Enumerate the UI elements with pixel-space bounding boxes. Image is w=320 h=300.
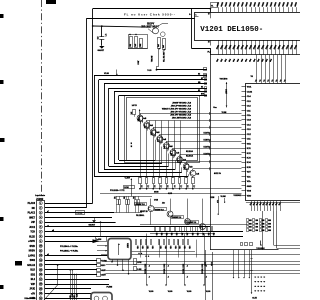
svg-text:S002: S002 [30,260,36,262]
junction dots row [138,253,139,254]
bus loop wire 5 left [114,92,116,164]
svg-text:888: 888 [262,220,265,222]
bus line A y188.8 [139,188,242,190]
bus loop wire 1 left [94,75,96,176]
wire pin11 label P?L12B4 [97,250,108,252]
ground GAU2T [99,46,104,49]
svg-text:J2B: J2B [186,233,188,236]
bus loop wire 3 bottom [104,169,175,171]
svg-text:HL2D: HL2D [29,236,35,238]
svg-text:B02: B02 [140,44,142,47]
svg-text:NC: NC [32,208,36,210]
svg-text:P/J08 # J02: P/J08 # J02 [202,264,204,274]
Q32 emitter [170,217,172,225]
junction dots on cluster top [129,34,130,35]
cascade transistor Q12 [144,122,150,128]
svg-text:+3V0V: +3V0V [28,241,35,243]
svg-text:8: 8 [261,286,263,287]
CRT pin left [195,16,199,18]
transistor in module b [103,296,108,300]
wire pin12 [45,255,108,257]
svg-text:S2: S2 [198,74,200,76]
node junction cap tap [101,25,103,27]
wire pin1 [45,203,93,205]
svg-text:J-2B: J-2B [151,246,153,249]
svg-text:2u2: 2u2 [151,132,153,135]
bus loop wire 3 left [104,84,106,170]
svg-text:1:8 T.8: 1:8 T.8 [132,105,137,107]
cascade collector wire 4 [159,134,161,136]
svg-text:4P2D: 4P2D [29,245,35,248]
connector pin 12 [39,254,42,257]
svg-text:8: 8 [258,281,260,282]
svg-text:888: 888 [256,223,259,225]
svg-text:VSS: VSS [247,191,252,193]
wire pin4 with ground GAUOT [45,217,112,219]
svg-text:8: 8 [255,290,257,291]
svg-text:2u2: 2u2 [184,167,186,170]
bus loop wire 1 bottom [94,176,188,178]
svg-text:J-2B: J-2B [146,246,148,249]
svg-text:J2B: J2B [196,233,198,236]
svg-text:J-2B: J-2B [141,246,143,249]
staircase wire 1 to right edge [273,211,275,245]
svg-text:2u2: 2u2 [131,112,133,115]
svg-text:JRGW VW DRD -7L8: JRGW VW DRD -7L8 [172,102,192,104]
svg-text:J-2: J-2 [146,185,148,187]
resistor R1 [130,37,133,48]
svg-text:KL2B1A: KL2B1A [186,155,194,158]
wire pin9 with signal arrow [45,241,93,243]
Q34 emitter [202,225,204,230]
resistor row lower [136,240,137,245]
wire down from cluster [158,49,160,67]
connector pin 9 [39,240,42,243]
svg-text:VDD: VDD [247,195,252,197]
wire pin6 [45,226,210,228]
svg-text:J-2: J-2 [160,185,162,187]
cascade emitter wire 9 [192,176,194,178]
svg-text:J-2: J-2 [186,185,188,187]
module box boundary [210,54,300,56]
svg-text:J-P02: J-P02 [137,262,141,264]
wire pin19 [45,288,91,290]
svg-text:1u3: 1u3 [97,36,99,39]
supply rails VL00 [146,234,148,285]
svg-text:1u8: 1u8 [163,45,165,48]
small boxes J-P02 [134,259,137,265]
cascade base resistor R21 [133,110,136,115]
CRT drive lines to IC [256,55,258,84]
svg-text:BL2: BL2 [31,279,36,281]
svg-text:8: 8 [40,236,41,238]
tick marks on module edge for collector wires [209,112,211,115]
svg-text:8: 8 [258,290,260,291]
svg-text:J-2: J-2 [153,185,155,187]
bus line y251 [130,251,195,253]
svg-text:J-2: J-2 [173,185,175,187]
wire pin3 with fuse IF252 [45,212,114,214]
wire pin15 [45,269,97,271]
connector pin 7 [39,230,42,233]
svg-text:1: 1 [40,203,41,205]
IC U1 body [246,84,301,201]
wire net pin2 horizontal [87,18,195,20]
svg-text:TCH: TCH [30,232,35,234]
svg-text:KL2B14: KL2B14 [186,150,193,153]
arrow rails under module [233,250,235,278]
cascade emitter resistor R36 [172,178,175,184]
svg-text:2u2: 2u2 [144,125,146,128]
svg-text:J-2B: J-2B [174,246,176,249]
svg-text:S4: S4 [201,85,203,88]
cascade emitter wire 7 [179,162,181,177]
svg-text:VL3M: VL3M [221,196,226,198]
bus loop wire 2 bottom [99,172,182,174]
svg-text:KJ2T1A: KJ2T1A [204,152,212,155]
svg-text:J-2B: J-2B [136,246,138,249]
node junction at CRT grid [209,8,211,10]
svg-text:888: 888 [262,227,265,229]
wire pin20 [45,293,91,295]
transistor Q33 [185,219,191,225]
svg-text:6: 6 [40,227,41,229]
svg-text:C1S2: C1S2 [247,91,253,93]
wire pin2 [45,207,87,209]
svg-text:J-2B: J-2B [164,246,166,249]
cascade transistor Q16 [170,150,176,156]
Q33 emitter [187,224,189,226]
arrow up 1/CM [131,179,133,197]
cascade base resistor R25 [160,138,163,143]
wire pin15 branch down b [72,269,73,270]
transistor in module a [94,296,99,300]
svg-text:JCC2: JCC2 [29,227,36,229]
svg-text:BLR: BLR [30,270,35,272]
svg-text:FL2: FL2 [208,52,211,54]
arrow down x218 [218,196,220,215]
svg-text:2u2: 2u2 [164,146,166,149]
wire pin17 [45,279,109,281]
svg-text:a7: a7 [47,211,49,213]
connector pin 11 [39,249,42,252]
arrow in list box [139,109,141,120]
cascade base resistor R24 [153,131,156,136]
bus line B2 y196.3 [116,196,152,198]
svg-text:ZGZBW 7L8: ZGZBW 7L8 [187,222,196,224]
cascade emitter wire 5 [166,149,168,178]
CRT top pins [218,7,220,12]
CRT pin G2 top [210,12,212,18]
svg-text:S/C08: S/C08 [154,192,159,194]
cascade base resistor R28 [180,158,182,163]
wire pin13 [45,260,97,262]
svg-text:3DJPY: 3DJPY [147,24,155,26]
svg-text:8: 8 [264,290,266,291]
wire to V1201 grid pin [210,9,212,12]
wire pin7 long [45,231,243,233]
svg-text:J-2: J-2 [193,185,195,187]
svg-text:3: 3 [40,212,41,214]
svg-text:VL00: VL00 [168,291,173,293]
svg-text:ZGZBW 7L8: ZGZBW 7L8 [172,217,181,219]
rail CL55 [251,250,253,293]
resistor group box [129,35,148,49]
svg-text:J02: J02 [124,196,126,199]
transistor Q32 [167,211,173,217]
svg-text:2u2: 2u2 [158,139,160,142]
connector pin 8 [39,235,42,238]
svg-text:1u3: 1u3 [135,44,137,47]
svg-text:C12M: C12M [210,197,215,199]
cascade transistor Q13 [150,129,156,135]
svg-text:S2: S2 [198,90,200,92]
svg-text:1uF08: 1uF08 [96,239,101,241]
label ZGZBW for Q32 [155,208,167,211]
svg-text:Y-JBY: Y-JBY [125,178,131,180]
svg-text:KJ2T14: KJ2T14 [204,145,212,148]
registration mark left 2 [0,80,4,84]
cascade base resistor R26 [167,145,169,149]
svg-text:ZGZBW 7L8: ZGZBW 7L8 [136,204,145,206]
Q32 collector [170,199,172,211]
board boundary dash-dot line [41,0,43,195]
bus loop wire 2 left [98,80,100,173]
registration mark left 5 [0,285,4,289]
bus line B y193.4 [100,193,242,195]
svg-text:2: 2 [40,208,41,210]
svg-text:FL: FL [211,5,213,7]
svg-text:B2: B2 [208,40,210,42]
bus loop wire 5 top [114,91,207,93]
svg-text:J2B: J2B [175,233,177,236]
svg-text:YGVJHG: YGVJHG [220,79,228,81]
svg-text:J-2: J-2 [179,185,181,187]
cascade collector wire 5 [166,141,168,143]
cascade collector wire 6 [172,148,174,150]
svg-text:J02: J02 [133,196,135,199]
boxes above module bottom [241,243,243,246]
IC U1 left pins [242,86,246,88]
svg-text:G1b: G1b [247,143,252,145]
svg-text:VL00: VL00 [206,291,211,293]
svg-text:J2B: J2B [170,233,172,236]
svg-text:JL0: JL0 [216,200,218,203]
svg-text:JRG JP? VB DRD -7L8: JRG JP? VB DRD -7L8 [170,111,191,113]
svg-text:J2B: J2B [202,233,204,236]
resistor grid in module [247,219,249,222]
IC U1 bottom pins [251,201,253,211]
svg-text:8: 8 [255,277,257,278]
IC bottom bus line [246,202,300,204]
svg-text:S7: S7 [201,78,203,80]
svg-text:P/J08 # J02: P/J08 # J02 [183,264,185,274]
svg-text:J2B: J2B [191,233,193,236]
svg-text:GAU2T: GAU2T [98,49,105,52]
svg-text:8: 8 [261,281,263,282]
connector pin 6 [39,225,42,228]
connector pin 4 [39,216,42,219]
cascade emitter resistor R33 [153,178,155,184]
svg-text:LJJ05 TB TYB: LJJ05 TB TYB [162,51,164,63]
cascade emitter wire 8 [186,169,188,178]
shielded module bottom-left [91,293,112,300]
cascade emitter resistor R32 [146,178,148,184]
cascade transistor Q15 [163,143,169,149]
svg-text:JRG JP?GB DRD -7L8: JRG JP?GB DRD -7L8 [171,105,192,107]
cascade transistor Q18 [183,163,189,169]
svg-text:ZGZBW 7L8: ZGZBW 7L8 [155,209,164,211]
resistor pairs under bus [117,200,119,205]
transistor Q34 [200,224,206,230]
svg-text:9NET: 9NET [29,217,35,219]
wire pin10 label P?L1254 [97,245,108,247]
connector J1202 body [37,201,45,300]
svg-text:GOLA2: GOLA2 [27,264,35,267]
svg-text:888: 888 [262,223,265,225]
cascade collector wire 7 [179,155,181,157]
svg-text:8: 8 [258,286,260,287]
arrow above Y-1S05H [260,241,262,246]
svg-text:8: 8 [261,277,263,278]
svg-text:7: 7 [40,231,41,233]
Q34 collector [202,199,204,224]
cascade collector wire 3 [153,127,155,129]
vertical wires bottom mid [140,240,142,258]
cascade transistor Q19 [190,170,196,176]
svg-text:JL5b: JL5b [210,262,212,266]
svg-text:PL/BM: PL/BM [107,287,113,289]
svg-text:J8C0: J8C0 [137,61,139,65]
registration mark top [46,0,56,4]
svg-text:J-2B: J-2B [178,246,180,249]
svg-text:17: 17 [40,279,42,281]
svg-text:JRG JW7B DRD -7L8: JRG JW7B DRD -7L8 [172,117,192,119]
svg-text:JL50: JL50 [204,262,206,266]
svg-text:888: 888 [249,223,252,225]
connector pin 20 [39,292,42,295]
svg-text:2u2: 2u2 [171,153,173,156]
svg-text:10: 10 [40,246,42,248]
svg-text:P/J08 # J02: P/J08 # J02 [145,264,147,274]
svg-text:888: 888 [268,227,271,229]
resistor R4 [158,38,161,49]
svg-text:1/CM: 1/CM [124,187,129,189]
bus connectors from boxes [100,260,106,261]
wire pin16 [45,274,97,276]
transistor Q2 partial [161,32,166,37]
svg-text:G2: G2 [208,12,210,14]
svg-text:P?L12B4-L~? ?L5Ba: P?L12B4-L~? ?L5Ba [60,250,79,253]
bus loop wire 3 top [104,83,207,85]
svg-text:2u2: 2u2 [177,160,179,163]
label 1/CM boxed [124,186,135,189]
wire y212 under pairs [114,212,142,214]
connector pin 17 [39,278,42,281]
bus loop wire 4 left [108,88,110,166]
cascade emitter wire 1 [140,121,142,178]
Q31 collector [150,199,152,206]
svg-text:888: 888 [249,230,252,232]
cascade emitter wire 6 [172,156,174,178]
bus line E y224.8 [140,224,247,226]
svg-text:20: 20 [40,293,42,295]
svg-text:J2B: J2B [207,233,209,236]
svg-text:5: 5 [40,222,41,224]
capacitor C1 to ground [101,26,103,37]
resistor R2 [135,37,138,48]
svg-text:P/J08 # J02: P/J08 # J02 [164,264,166,274]
bus loop wire 4 top [109,88,207,90]
svg-text:CL55: CL55 [252,298,256,300]
shielded module V-2427 [108,239,131,260]
inner list box outer shell [125,96,200,163]
svg-text:14: 14 [40,264,42,267]
svg-text:8: 8 [264,286,266,287]
svg-text:8: 8 [255,286,257,287]
svg-text:J-2: J-2 [140,185,142,187]
wire pin21 [45,298,91,300]
resistor row upper [155,227,156,232]
tick marks on CL55 [250,258,252,260]
svg-text:8: 8 [264,277,266,278]
svg-text:+5V: +5V [31,293,36,295]
connector pin 5 [39,221,42,224]
cascade collector wire 1 [140,114,142,116]
module edge pin tab a [204,68,207,71]
branch from pin5 to 1uF08 [100,221,102,223]
bus loop wire 1 top [94,75,207,77]
svg-text:JPJE: JPJE [29,289,35,291]
svg-text:Luprimate: Luprimate [35,194,46,197]
svg-text:888: 888 [268,223,271,225]
cascade emitter resistor R37 [179,178,181,184]
svg-text:VL00: VL00 [149,291,154,293]
svg-text:JBC0BL: JBC0BL [150,56,152,63]
svg-text:J2B: J2B [212,233,214,236]
CRT block V1201 [195,13,301,41]
svg-text:SD2: SD2 [31,274,36,276]
wire cluster bottom [128,48,148,50]
cascade base resistor R27 [173,151,176,156]
bus loop wire 2 top [99,79,207,81]
svg-text:8: 8 [264,281,266,282]
bus loop wire 6 left [118,95,120,160]
cascade transistor Q14 [157,136,163,142]
svg-text:HVBV: HVBV [29,251,36,253]
verticals from value list to cascade bases [142,121,144,123]
bus line under row1 [150,233,215,235]
connector pin 18 [39,282,42,285]
svg-text:L b: L b [105,34,107,37]
connector pin 21 [39,297,42,300]
wire net pin1 horizontal top [93,8,211,10]
cascade collector wire 9 [192,169,194,171]
svg-text:2u2: 2u2 [138,119,140,122]
svg-text:FL no User Chek 5050--: FL no User Chek 5050-- [124,13,176,17]
cascade emitter resistor R39 [192,178,195,184]
svg-text:V1B8-PJ JRG JP? GB DRD -7L8: V1B8-PJ JRG JP? GB DRD -7L8 [162,108,192,110]
connector pin 2 [39,206,42,209]
CRT bottom pins [218,40,220,55]
wire pin14 [45,264,97,266]
svg-text:16: 16 [40,274,42,276]
svg-text:JRG JP? GB DRD -7L8: JRG JP? GB DRD -7L8 [170,114,192,116]
svg-text:2u2: 2u2 [158,44,160,47]
svg-text:19: 19 [40,288,42,290]
svg-text:J-2B: J-2B [169,246,171,249]
svg-text:Y8: Y8 [251,76,253,78]
